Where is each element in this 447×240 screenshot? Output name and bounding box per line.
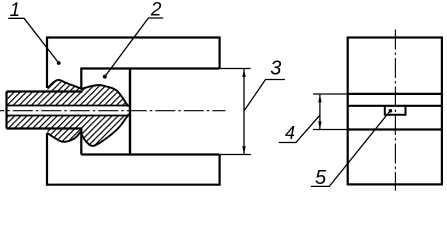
dimension 3 top arrowhead: [242, 69, 245, 77]
stud core top line: [7, 105, 130, 107]
slot step wall upper: [80, 68, 82, 90]
stud head bottom outline: [82, 114, 129, 146]
slot step wall lower: [80, 128, 82, 155]
dimension 3 extension line top: [220, 68, 251, 70]
dimension 4 bottom arrowhead: [318, 121, 321, 129]
slot bottom edge: [81, 153, 219, 155]
dimension 4 line: [319, 95, 321, 130]
dimension 3 line: [243, 69, 245, 154]
slot top edge: [81, 67, 219, 69]
hatched stud and compound section fill: [0, 70, 140, 160]
label 2 shelf: [105, 18, 163, 77]
label 1 shelf: [8, 18, 58, 63]
label 2 leader dot: [103, 75, 107, 79]
dimension 3 bottom arrowhead: [242, 146, 245, 154]
housing block outline (part 1): [47, 38, 220, 185]
svg-text:5: 5: [315, 167, 327, 189]
right view outer rectangle: [348, 38, 442, 185]
adhesive notch on joint line: [385, 107, 406, 115]
horizontal centerline of stud: [0, 110, 225, 112]
compound right face: [129, 69, 131, 155]
right view line A: [348, 93, 442, 95]
compound top wavy surface over stud head: [48, 80, 129, 107]
label 4 shelf and leader: [279, 115, 320, 142]
stud top edge: [7, 90, 83, 92]
dimension 4 extension line bottom: [313, 129, 348, 131]
dimension 4 extension line top: [313, 93, 348, 95]
right view line C: [348, 128, 442, 130]
dimension 4 top arrowhead: [318, 95, 321, 103]
stud bottom edge: [7, 127, 83, 129]
right view line B: [348, 105, 442, 107]
stud left end cap: [5, 92, 7, 129]
svg-text:4: 4: [285, 123, 295, 143]
label 5 leader dot: [389, 109, 393, 113]
label 5 shelf and leader: [311, 111, 391, 187]
dimension 3 extension line bottom: [220, 154, 251, 156]
stud core bottom line: [7, 115, 130, 117]
right view vertical centerline: [394, 30, 396, 191]
svg-text:3: 3: [270, 58, 281, 80]
label 3 shelf and leader: [244, 80, 285, 112]
compound bottom wavy surface: [47, 132, 80, 142]
label 1 leader dot: [57, 61, 61, 65]
